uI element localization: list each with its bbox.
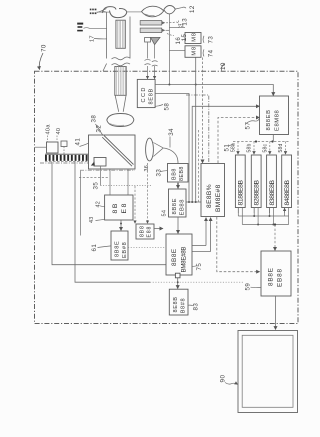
svg-text:58d: 58d bbox=[278, 144, 284, 153]
svg-text:59: 59 bbox=[245, 283, 252, 291]
system controller box 75 bbox=[166, 234, 192, 275]
arrow sensor to analog box bbox=[177, 182, 179, 188]
svg-text:EB88: EB88 bbox=[180, 199, 186, 216]
junction block under sysctrl bbox=[175, 273, 180, 278]
inner dash-dot enclosure bbox=[186, 95, 209, 163]
svg-text:8B8E: 8B8E bbox=[172, 198, 178, 215]
svg-text:BM8E#8B: BM8E#8B bbox=[180, 247, 187, 273]
dashed stub wire bbox=[178, 21, 180, 28]
wire sensor down bbox=[100, 166, 102, 186]
leader fork from 11a 11b bbox=[97, 9, 107, 13]
svg-text:8B8: 8B8 bbox=[140, 225, 146, 237]
ray arrow into sensor bbox=[91, 161, 95, 165]
wire video processor to display bbox=[275, 296, 277, 329]
prism box bbox=[89, 135, 136, 169]
display unit 90 outer bbox=[238, 331, 298, 413]
wire lens-drive down to memory bus bbox=[272, 135, 274, 142]
dashed wire into junction bus bbox=[198, 130, 200, 202]
svg-text:CCD: CCD bbox=[141, 86, 147, 102]
motor box 74 bbox=[185, 46, 201, 58]
arrow sysctrl to switch box bbox=[177, 278, 179, 289]
svg-text:32: 32 bbox=[96, 125, 103, 133]
svg-text:8B8E: 8B8E bbox=[171, 248, 178, 266]
svg-text:EB88: EB88 bbox=[276, 268, 283, 287]
drive funnel triangle bbox=[151, 37, 161, 44]
long wire finder to system controller bbox=[52, 162, 166, 265]
image sensor box 33 bbox=[168, 164, 189, 183]
svg-text:58a: 58a bbox=[231, 143, 237, 152]
wire from 18 to barrel bbox=[84, 27, 107, 30]
wire band14 to spine bbox=[166, 29, 170, 31]
svg-text:8B8E: 8B8E bbox=[268, 267, 275, 286]
wire gearbox down to ccd driver bbox=[147, 42, 149, 59]
dashed wire timing to lens-drive 57 bbox=[218, 118, 259, 164]
lens barrel left wall bbox=[103, 12, 107, 71]
photometry sensor box 39 bbox=[94, 158, 106, 167]
svg-text:8188E8B: 8188E8B bbox=[238, 179, 245, 205]
break tilde on wire bbox=[145, 59, 151, 64]
svg-text:90: 90 bbox=[220, 375, 227, 383]
long wire comb to bottom bus bbox=[75, 162, 150, 282]
svg-text:8488E8B: 8488E8B bbox=[284, 179, 291, 205]
light cone from barrel to lens 31 bbox=[115, 96, 126, 112]
wire motor feed down bbox=[195, 58, 197, 203]
memory output bus upper bbox=[238, 215, 288, 217]
leader to 12 bbox=[176, 7, 187, 9]
switch box 83 bbox=[169, 289, 188, 315]
svg-text:8EB8: 8EB8 bbox=[179, 166, 185, 181]
svg-text:36: 36 bbox=[144, 165, 150, 172]
svg-text:12: 12 bbox=[189, 5, 196, 13]
converging rays bbox=[153, 143, 163, 157]
dotted wire flash box to sysctrl bbox=[128, 246, 166, 248]
svg-text:38: 38 bbox=[91, 115, 98, 123]
wire timing to sysctrl b bbox=[210, 218, 212, 252]
wire ccd-driver second output bbox=[155, 94, 189, 203]
ccd driver box 56 bbox=[137, 79, 155, 107]
svg-text:40: 40 bbox=[56, 128, 62, 135]
dashed wire timing to video processor bbox=[217, 217, 260, 272]
svg-text:41: 41 bbox=[75, 138, 82, 146]
leader 75 bbox=[192, 265, 197, 268]
wire from body edge to finder box bbox=[35, 146, 47, 148]
dashed leader to label 15 bbox=[167, 34, 174, 36]
flash control box 61 bbox=[111, 231, 128, 260]
dashed drop into af box left bbox=[134, 186, 136, 223]
lens barrel right wall bbox=[129, 17, 131, 59]
dashed drop 40a bbox=[47, 136, 49, 143]
junction bus into timing controller bbox=[186, 201, 201, 203]
svg-text:EB#8: EB#8 bbox=[122, 242, 128, 258]
shutter unit hatched column lower bbox=[115, 67, 126, 96]
svg-text:8288E8B: 8288E8B bbox=[254, 179, 261, 205]
analog processing box 54 bbox=[169, 189, 187, 217]
dashed drops into memories bbox=[237, 142, 239, 155]
spine wire 16 vertical bbox=[168, 14, 170, 85]
leader 83 bbox=[188, 304, 193, 306]
leader arrow to body corner bbox=[39, 53, 43, 70]
label 18 dark block bbox=[77, 23, 83, 32]
dashed drop 40 bbox=[56, 136, 58, 142]
svg-text:E8: E8 bbox=[121, 202, 128, 214]
svg-text:M8: M8 bbox=[191, 46, 197, 56]
svg-text:61: 61 bbox=[91, 244, 98, 252]
svg-text:58c: 58c bbox=[262, 144, 268, 153]
wire ccd-driver to lens-drive unit bbox=[155, 85, 273, 96]
nd filter hatched bar 14 bbox=[140, 28, 165, 32]
camera body dashed enclosure 70 bbox=[35, 71, 299, 323]
dashed leader to label 13 bbox=[166, 21, 178, 24]
leader 51 bbox=[229, 145, 235, 146]
leader 90 wavy bbox=[225, 383, 238, 385]
label 11a bbox=[90, 9, 97, 11]
svg-text:8E8B: 8E8B bbox=[173, 296, 179, 312]
svg-text:8E8B%: 8E8B% bbox=[206, 184, 213, 208]
finder sub box bbox=[61, 141, 67, 147]
svg-text:58b: 58b bbox=[247, 144, 253, 153]
wire funnel down to ccd driver bbox=[154, 45, 156, 59]
leader 42 bbox=[100, 205, 105, 208]
svg-text:34: 34 bbox=[168, 128, 175, 136]
image memory 3 box bbox=[267, 155, 277, 208]
video signal processing box 59 bbox=[261, 251, 291, 296]
svg-text:57: 57 bbox=[245, 122, 252, 130]
wire image processing down bbox=[120, 220, 122, 230]
timing controller box 51 bbox=[201, 164, 225, 217]
svg-text:8B8E: 8B8E bbox=[115, 241, 121, 257]
svg-text:8B: 8B bbox=[112, 202, 119, 214]
lens 12 small oval bbox=[164, 5, 176, 13]
svg-text:B8#8: B8#8 bbox=[181, 298, 187, 313]
lens drive mechanism box 72 bbox=[260, 96, 289, 135]
image processing box 42 bbox=[105, 195, 133, 220]
leader 58 bbox=[156, 105, 164, 107]
lens 12 large oval bbox=[142, 6, 164, 17]
bracket 74 bbox=[202, 49, 205, 56]
svg-text:35: 35 bbox=[93, 182, 100, 190]
svg-text:BM8E#8: BM8E#8 bbox=[215, 184, 222, 212]
leader 59 bbox=[251, 286, 261, 288]
image memory 4 box bbox=[282, 155, 292, 208]
half mirror diagonal bbox=[102, 136, 133, 167]
leader squiggle to body top edge bbox=[221, 64, 224, 71]
wire third output to lens-drive bbox=[192, 106, 259, 202]
svg-text:83: 83 bbox=[193, 303, 200, 311]
svg-text:16: 16 bbox=[175, 37, 182, 45]
curved ray into sensor 33 bbox=[163, 148, 178, 163]
optical axis segment mid bbox=[127, 11, 141, 13]
relay lens 36 bbox=[146, 138, 154, 161]
image memory 1 box bbox=[235, 155, 245, 208]
dotted line 35 bbox=[101, 185, 153, 187]
dashed stub line 37 bbox=[79, 177, 108, 179]
wire spine to motor M2 bbox=[169, 49, 185, 51]
dotted continuation of bottom bus bbox=[150, 281, 243, 283]
label 11b bbox=[90, 12, 97, 14]
svg-text:72: 72 bbox=[179, 23, 185, 28]
svg-text:8E8B: 8E8B bbox=[148, 88, 154, 104]
svg-text:8B8EB: 8B8EB bbox=[266, 109, 272, 130]
unit boundary dash-dot below prism bbox=[80, 169, 135, 171]
dashed drop from sub box bbox=[63, 147, 65, 155]
bracket 73 bbox=[202, 36, 205, 43]
barrel break squiggle bbox=[112, 57, 131, 66]
shutter blade hatched bar 13 bbox=[140, 21, 165, 25]
wires prism into image processing bbox=[110, 169, 128, 195]
lens group 11b lower element bbox=[110, 9, 127, 18]
motor box 73 bbox=[185, 33, 201, 44]
svg-text:33: 33 bbox=[156, 169, 163, 177]
leader 41 to prism bbox=[80, 143, 89, 146]
lens group 11a upper element bbox=[102, 7, 116, 13]
wire photometry drop bbox=[80, 171, 82, 236]
svg-text:M8: M8 bbox=[191, 32, 197, 42]
svg-text:74: 74 bbox=[208, 49, 215, 57]
af assist box 44 bbox=[136, 224, 154, 239]
svg-text:43: 43 bbox=[89, 216, 95, 223]
svg-text:58: 58 bbox=[163, 103, 170, 111]
dash-dot under comb bbox=[40, 162, 88, 164]
image memory 2 box bbox=[251, 155, 261, 208]
svg-text:75: 75 bbox=[196, 263, 203, 271]
svg-text:BB8: BB8 bbox=[172, 168, 178, 180]
dashed drop relay lens to af box bbox=[147, 163, 149, 223]
finder box 40 bbox=[47, 142, 59, 153]
svg-text:8388E8B: 8388E8B bbox=[269, 179, 276, 205]
optical axis segment left bbox=[97, 11, 110, 13]
wire timing to sysctrl a bbox=[205, 218, 207, 246]
display unit 90 inner bbox=[242, 335, 293, 407]
leader 57 bbox=[246, 119, 259, 124]
svg-text:70: 70 bbox=[41, 44, 48, 52]
dashed wire motors to timing controller bbox=[202, 58, 204, 163]
eyepiece comb hatch bbox=[45, 153, 88, 155]
dashed memory feed bus bbox=[233, 141, 289, 143]
shutter unit hatched column upper bbox=[116, 20, 125, 48]
break tilde on wire bbox=[152, 61, 158, 66]
memory output bus lower bbox=[242, 224, 288, 226]
svg-text:54: 54 bbox=[162, 210, 168, 217]
svg-text:E88: E88 bbox=[146, 226, 152, 238]
arrow analog to system controller bbox=[177, 217, 179, 233]
drive gearbox small box bbox=[145, 38, 151, 43]
leader 38 to mirror bbox=[96, 124, 104, 136]
svg-text:51: 51 bbox=[224, 144, 231, 152]
leader 33 bbox=[161, 170, 168, 173]
svg-text:40a: 40a bbox=[46, 124, 52, 135]
wire 34 to focal point bbox=[169, 137, 171, 148]
arrows up into memory bottoms bbox=[238, 208, 284, 213]
condenser lens 31 above prism bbox=[107, 113, 134, 126]
leader 17 to barrel bbox=[94, 38, 107, 40]
svg-text:E8M88: E8M88 bbox=[274, 110, 280, 131]
wire spine to motor M1 bbox=[169, 27, 185, 29]
leader 61 bbox=[98, 246, 112, 248]
arrow af box to sysctrl bbox=[154, 228, 163, 230]
svg-text:42: 42 bbox=[96, 201, 102, 208]
svg-text:73: 73 bbox=[208, 36, 215, 44]
wire bus down to video processor bbox=[274, 225, 276, 251]
leader 43 bbox=[96, 219, 105, 220]
